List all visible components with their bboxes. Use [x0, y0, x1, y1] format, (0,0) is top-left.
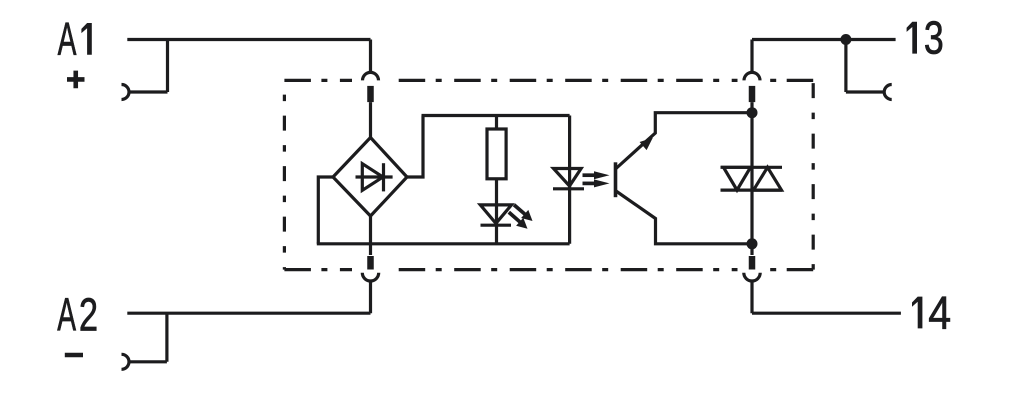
- svg-text:A: A: [57, 288, 76, 340]
- svg-text:4: 4: [928, 286, 951, 338]
- svg-text:2: 2: [79, 288, 98, 340]
- svg-text:A: A: [58, 13, 77, 65]
- svg-text:3: 3: [924, 12, 944, 64]
